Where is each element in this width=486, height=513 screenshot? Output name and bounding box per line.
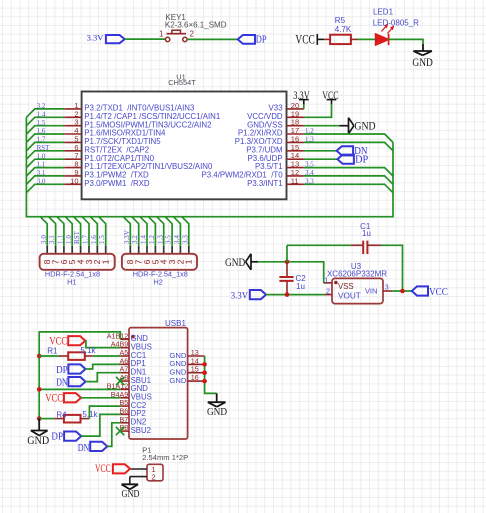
net label 1.0 (rotated) (65, 235, 73, 244)
svg-text:GND: GND (27, 435, 49, 447)
svg-text:3.3V: 3.3V (123, 229, 131, 244)
svg-text:3.2: 3.2 (131, 235, 139, 244)
wire bus to header pin (net 1.7) (82, 217, 89, 255)
wire bus to header pin (net 1.1) (57, 217, 64, 255)
svg-text:R4: R4 (56, 410, 67, 419)
capacitor C1 1u (351, 222, 381, 254)
svg-text:DP: DP (256, 34, 267, 45)
svg-text:3.3: 3.3 (305, 177, 314, 185)
wire bus to header pin (net 1.0) (65, 217, 72, 255)
wire U1 pin 5 to left bus (26, 142, 64, 150)
USB1 pin B5 CC2 (120, 398, 147, 410)
svg-text:VOUT: VOUT (338, 291, 361, 300)
net label 1.1 (37, 161, 46, 169)
port DN (USB A) (56, 377, 85, 388)
svg-text:GND: GND (225, 255, 246, 269)
svg-text:2: 2 (190, 29, 195, 38)
node C2-bottom junction (285, 292, 290, 297)
wire bus to header pin (net 1.2) (148, 217, 155, 255)
wire left bus / bottom rail / right bus (26, 117, 393, 216)
wire C2 junction to C1 (287, 244, 351, 246)
svg-text:5.1k: 5.1k (80, 346, 96, 355)
wire bus to header pin (net 3.1) (49, 217, 56, 255)
wire R4 to CC2 (89, 406, 120, 419)
wire VCC to VBUS A (85, 341, 120, 348)
svg-text:XC6206P332MR: XC6206P332MR (327, 269, 387, 278)
USB1 pin A6 DP1 (120, 356, 146, 368)
svg-text:1.0: 1.0 (37, 152, 46, 160)
svg-text:H1: H1 (67, 278, 76, 287)
net label 3.4 (rotated) (173, 235, 181, 244)
USB1 pin A5 CC1 (120, 348, 147, 360)
svg-text:1: 1 (159, 29, 164, 38)
USB1 pin 13 GND (169, 348, 204, 360)
port VCC (USB B-side VBUS) (45, 392, 81, 404)
net label 3.0 (rotated) (40, 235, 48, 244)
svg-text:1.5: 1.5 (37, 119, 46, 127)
svg-text:VSS: VSS (338, 282, 354, 291)
node GND13-16 junction (202, 379, 207, 384)
net label 1.0 (37, 152, 46, 160)
wire GND rail to U3 VSS (258, 262, 324, 283)
net label 3.2 (rotated) (131, 235, 139, 244)
svg-text:VCC: VCC (295, 32, 314, 46)
ground (USB right) (207, 393, 227, 418)
wire bus to header pin (net 3.2) (132, 217, 139, 255)
net label 3.2 (37, 102, 46, 110)
op-amp U1 CH554T body (82, 72, 287, 199)
connector H1 HDR-F-2.54_1x8 (40, 254, 115, 287)
wire rail to GND B (39, 388, 120, 390)
svg-text:DN: DN (78, 443, 90, 454)
net label 1.2 (rotated) (148, 235, 156, 244)
wire U1 to right bus (net 3.5) (304, 168, 393, 176)
svg-text:GND: GND (412, 55, 433, 69)
pushbutton KEY1 K2-3.6x6.1_SMD (159, 13, 227, 42)
wire LED1 to GND (389, 39, 423, 44)
USB1 pin A7 DN1 (120, 365, 147, 377)
resistor R5 4.7K (324, 16, 357, 44)
svg-text:3.3V: 3.3V (87, 33, 105, 43)
power flag 3.3V (to U3 VOUT) (231, 290, 266, 302)
svg-text:1.3: 1.3 (305, 136, 314, 144)
port DN (U1) (337, 146, 368, 157)
svg-text:GND: GND (207, 406, 227, 418)
power flag VCC (to R5) (295, 32, 324, 46)
wire C1 to VCC node (381, 245, 403, 291)
wire U1 to right bus (net 3.4) (304, 176, 393, 184)
U1 pin 17 P1.2/XI/RXD (238, 126, 304, 138)
connector H2 HDR-F-2.54_1x8 (122, 254, 197, 287)
svg-text:1.4: 1.4 (37, 110, 46, 118)
USB1 pin A8 SBU1 (120, 373, 151, 385)
wire R5 to LED1 (357, 38, 376, 40)
power flag 3.3V (U1 pin20) (293, 90, 310, 109)
svg-text:1.6: 1.6 (90, 235, 98, 244)
U1 pin 14 P3.6/UDP (248, 151, 304, 163)
svg-text:P3.3/INT1: P3.3/INT1 (247, 179, 283, 188)
USB1 pin 16 GND (169, 373, 204, 385)
wire U1 pin 9 to left bus (26, 176, 64, 184)
svg-text:1.2: 1.2 (305, 127, 314, 135)
svg-text:16: 16 (191, 373, 199, 382)
svg-text:1: 1 (184, 259, 194, 264)
U1 pin 13 P3.5/T1 (255, 160, 304, 172)
USB1 pin B1A12 GND (107, 381, 149, 393)
net label 1.7 (37, 136, 46, 144)
USB1 pin A1B12 GND (107, 331, 149, 343)
wire P1 pin2 to GND (129, 477, 131, 485)
svg-text:LED1: LED1 (373, 7, 394, 16)
wire bus to header pin (net 1.6) (90, 217, 97, 255)
U1 pin 7 P1.0 (64, 151, 154, 163)
svg-text:3.1: 3.1 (48, 235, 56, 244)
svg-text:USB1: USB1 (165, 319, 186, 328)
port DP (U1) (337, 155, 368, 166)
wire U1 pin 7 to left bus (26, 159, 64, 167)
net label 1.2 (305, 127, 314, 135)
svg-text:1.7: 1.7 (37, 136, 46, 144)
wire U1 to right bus (net 1.2) (304, 134, 393, 142)
port VCC (right) (412, 286, 448, 298)
svg-text:VIN: VIN (365, 287, 378, 296)
svg-text:GND: GND (354, 119, 375, 133)
U1 pin 10 P3.0 (64, 176, 150, 188)
svg-text:GND: GND (169, 376, 186, 385)
power flag 3.3V (to KEY1) (87, 33, 125, 44)
U1 pin 1 P3.2 (64, 101, 195, 113)
svg-text:DN: DN (56, 377, 68, 388)
svg-text:10: 10 (70, 176, 78, 185)
svg-text:1.5: 1.5 (98, 235, 106, 244)
wire VCC to VBUS B (81, 397, 120, 399)
U1 pin 18 GND/VSS (247, 118, 304, 130)
USB1 pin 14 GND (169, 356, 204, 368)
ground (top right) (412, 44, 433, 69)
svg-text:1.1: 1.1 (57, 235, 65, 244)
svg-text:RST: RST (73, 230, 81, 244)
svg-text:4.7K: 4.7K (335, 25, 352, 34)
wire bus to header pin (net 3.5) (165, 217, 172, 255)
net label 3.3 (rotated) (181, 235, 189, 244)
wire DN to DN1 (86, 373, 121, 382)
port DP (USB B) (51, 431, 81, 442)
wire U1 pin 2 to left bus (26, 117, 64, 125)
net label 3.3V (rotated) (123, 229, 131, 244)
port DP (USB A) (56, 364, 85, 375)
svg-text:K2-3.6×6.1_SMD: K2-3.6×6.1_SMD (165, 21, 227, 30)
node VIN junction (400, 289, 405, 294)
svg-text:1.6: 1.6 (37, 127, 46, 135)
svg-text:1.0: 1.0 (65, 235, 73, 244)
svg-text:3.3: 3.3 (181, 235, 189, 244)
net label 3.0 (37, 177, 46, 185)
svg-text:RST: RST (37, 144, 51, 152)
U1 pin 11 P3.3/INT1 (247, 176, 304, 188)
svg-text:3.0: 3.0 (40, 235, 48, 244)
net label 3.1 (rotated) (48, 235, 56, 244)
net label 3.3 (305, 177, 314, 185)
LED LED1 LED-0805_R (373, 7, 419, 45)
U1 pin 2 P1.4 (64, 109, 220, 121)
U1 pin 5 P1.7 (64, 134, 161, 146)
wire U3 VIN to VCC (392, 290, 412, 292)
net label 3.4 (305, 169, 314, 177)
U1 pin 16 P1.3/XO/TXD (235, 134, 304, 146)
svg-text:5.1k: 5.1k (82, 410, 98, 419)
capacitor C2 1u (279, 262, 306, 295)
svg-text:2: 2 (326, 287, 330, 296)
net label 3.5 (305, 161, 314, 169)
ground (P1) (122, 484, 140, 500)
net label 1.5 (rotated) (98, 235, 106, 244)
node GND13-14 junction (202, 362, 207, 367)
svg-text:DP: DP (51, 431, 63, 442)
svg-text:R1: R1 (47, 347, 58, 356)
USB1 pin B7 DN2 (120, 415, 147, 427)
wire KEY1 pin2 to DP (187, 38, 238, 40)
U1 pin 8 P1.1 (64, 160, 213, 172)
node C2-top junction (285, 260, 290, 265)
svg-text:VCC: VCC (429, 287, 448, 298)
svg-text:SBU2: SBU2 (131, 426, 151, 435)
svg-text:VCC: VCC (45, 392, 63, 404)
net label 1.3 (305, 136, 314, 144)
wire DP to DP1 (86, 364, 121, 369)
resistor R4 5.1k (39, 410, 98, 423)
connector P1 2.54mm 1*2P (130, 446, 188, 482)
svg-text:2.54mm 1*2P: 2.54mm 1*2P (142, 453, 188, 462)
wire 3.3V to KEY1 pin1 (125, 38, 166, 40)
net label 1.4 (rotated) (140, 235, 148, 244)
svg-text:CH554T: CH554T (168, 78, 196, 87)
svg-text:1.3: 1.3 (156, 235, 164, 244)
node R1-rail junction (37, 354, 42, 359)
svg-text:3.5: 3.5 (165, 235, 173, 244)
node GND13-15 junction (202, 370, 207, 375)
wire bus to header pin (net 1.5) (99, 217, 106, 255)
USB1 pin B8 SBU2 (120, 423, 151, 435)
resistor R1 5.1k (39, 346, 120, 360)
ground (left rail) (27, 419, 49, 447)
node R4-rail junction (37, 416, 42, 421)
USB1 pin A4B9 VBUS (111, 340, 152, 352)
U1 pin 4 P1.6 (64, 126, 166, 138)
svg-text:DP: DP (56, 365, 68, 376)
wire U1 pin 1 to left bus (26, 109, 64, 117)
net label 1.6 (37, 127, 46, 135)
port DP (top) (238, 34, 267, 45)
net label 1.1 (rotated) (57, 235, 65, 244)
svg-text:1: 1 (101, 259, 111, 264)
wire U1 pin 10 to left bus (26, 184, 64, 192)
U1 pin 12 P3.4/PWM2/RXD1 /T0 (201, 168, 303, 180)
ground (U1 pin18) (339, 118, 375, 134)
USB1 pin B4A9 VBUS (111, 390, 152, 402)
wire U1 to right bus (net 1.3) (304, 142, 393, 150)
U1 pin 6 RST (64, 143, 149, 155)
net label RST (37, 144, 51, 152)
ground (left of C2) (225, 254, 258, 270)
wire U1 pin 3 to left bus (26, 126, 64, 134)
no-connect SBU2 (116, 427, 124, 435)
wire bus to header pin (net 3.3V) (123, 217, 130, 255)
svg-text:3.0: 3.0 (37, 177, 46, 185)
wire bus to header pin (net 1.3) (157, 217, 164, 255)
wire U1 pin15 to DN (304, 150, 337, 152)
U1 pin 15 P3.7/UDM (246, 143, 304, 155)
wire U1 pin 8 to left bus (26, 168, 64, 176)
svg-text:2: 2 (152, 473, 156, 482)
no-connect SBU1 (116, 377, 124, 385)
svg-text:1.7: 1.7 (82, 235, 90, 244)
wire U1 pin18 to GND (304, 125, 340, 127)
port VCC (P1) (95, 463, 130, 475)
svg-text:GND: GND (122, 489, 140, 500)
power flag VCC (U1 pin19) (304, 90, 339, 118)
wire bus to header pin (net 3.3) (182, 217, 189, 255)
U1 pin 19 VCC/VDD (247, 109, 304, 121)
svg-text:3.5: 3.5 (305, 161, 314, 169)
USB1 pin 15 GND (169, 365, 204, 377)
svg-text:P3.0/PWM1 /RXD: P3.0/PWM1 /RXD (84, 179, 150, 188)
svg-text:1.4: 1.4 (140, 235, 148, 244)
regulator U3 XC6206P332MR (324, 262, 393, 304)
port DN (USB B) (78, 442, 108, 454)
wire GND left rail (39, 332, 120, 419)
svg-text:1.2: 1.2 (148, 235, 156, 244)
wire C1 left drop (286, 245, 288, 261)
svg-text:11: 11 (291, 176, 299, 185)
node railB junction (37, 387, 42, 392)
svg-text:3.1: 3.1 (37, 169, 46, 177)
U1 pin 9 P3.1 (64, 168, 149, 180)
net label 3.1 (37, 169, 46, 177)
connector USB1 body (129, 319, 188, 439)
svg-text:H2: H2 (154, 278, 163, 287)
net label 1.5 (37, 119, 46, 127)
wire bus to header pin (net 3.4) (173, 217, 180, 255)
U1 pin 3 P1.5 (64, 118, 211, 130)
svg-text:3.3V: 3.3V (231, 292, 248, 302)
net label 1.4 (37, 110, 46, 118)
wire U1 pin 4 to left bus (26, 134, 64, 142)
wire 3.3V to U3 VOUT (266, 294, 325, 296)
wire bus to header pin (net RST) (74, 217, 81, 255)
wire U1 pin14 to DP (304, 158, 338, 160)
net label 1.6 (rotated) (90, 235, 98, 244)
wire U1 to right bus (net 3.3) (304, 184, 393, 192)
net label RST (rotated) (73, 230, 81, 244)
wire DN to DN2 (107, 423, 120, 447)
wire bus to header pin (net 3.0) (40, 217, 47, 255)
svg-text:LED-0805_R: LED-0805_R (373, 19, 419, 28)
svg-text:DP: DP (355, 155, 369, 166)
svg-text:1: 1 (324, 275, 328, 284)
svg-text:3: 3 (385, 283, 389, 292)
wire bus to header pin (net 1.4) (140, 217, 147, 255)
net label 1.7 (rotated) (82, 235, 90, 244)
U1 pin 20 V33 (269, 101, 304, 113)
USB1 pin B6 DP2 (120, 406, 146, 418)
net label 1.3 (rotated) (156, 235, 164, 244)
wire USB GND pins down (205, 356, 217, 393)
svg-text:3.4: 3.4 (305, 169, 314, 177)
svg-text:3.4: 3.4 (173, 235, 181, 244)
wire DP to DP2 (81, 414, 120, 436)
svg-text:1u: 1u (362, 229, 371, 238)
svg-text:1u: 1u (296, 282, 305, 291)
wire U1 pin 6 to left bus (26, 151, 64, 159)
svg-text:3.2: 3.2 (37, 102, 46, 110)
port VCC (USB A-side VBUS) (49, 336, 85, 348)
svg-text:1.1: 1.1 (37, 161, 46, 169)
net label 3.5 (rotated) (165, 235, 173, 244)
svg-text:VCC: VCC (95, 463, 111, 475)
